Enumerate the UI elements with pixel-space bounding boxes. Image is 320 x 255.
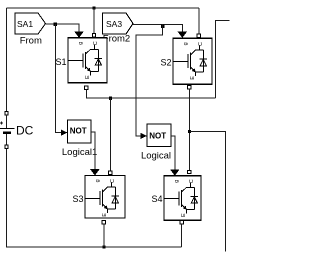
- NOT gate Logical1 block: [68, 120, 92, 143]
- wire DC- lead: [6, 134, 8, 145]
- svg-text:NOT: NOT: [149, 131, 166, 140]
- wire SA3 branch to Logical: [136, 24, 163, 136]
- wire DC+ lead: [6, 115, 8, 128]
- arrow into Logical input: [141, 133, 148, 139]
- svg-text:S3: S3: [72, 194, 83, 204]
- wire mid rail up right side: [216, 20, 230, 98]
- port square C of S1: [92, 34, 95, 37]
- port square C of S4: [188, 170, 191, 173]
- junction S2.E branch: [188, 130, 191, 133]
- wire SA1 branch to Logical1: [55, 24, 62, 133]
- wire S2.E to S4.C: [188, 89, 190, 171]
- DC battery short plate: [3, 131, 11, 133]
- IGBT S2 block: [173, 38, 212, 84]
- port square E of S2: [188, 85, 191, 88]
- DC source negative terminal: [5, 145, 8, 148]
- wire top rail DC+ to S1.C/S2.C: [7, 7, 199, 9]
- from tag SA3: [103, 13, 134, 34]
- IGBT S3 block: [85, 176, 125, 219]
- arrow S1 gate input: [74, 32, 83, 38]
- port square C of S3: [109, 171, 112, 174]
- port square C of S2: [197, 34, 200, 37]
- DC plus sign: [0, 122, 3, 125]
- IGBT S4 icon: [164, 179, 198, 217]
- IGBT S1 icon: [68, 41, 102, 79]
- NOT gate Logical block: [147, 124, 171, 147]
- junction bottom rail / S3.E: [102, 245, 105, 248]
- wire S2.C riser: [198, 8, 200, 34]
- port square E of S4: [180, 220, 183, 223]
- junction mid rail / S3.C riser: [109, 97, 112, 100]
- wire Logical output to S4 gate: [171, 136, 175, 170]
- arrow into Logical1 input: [61, 130, 68, 136]
- IGBT S4 block: [164, 176, 201, 220]
- IGBT S2 icon: [173, 42, 207, 80]
- IGBT S1 block: [68, 38, 107, 83]
- arrow S4 gate input: [170, 169, 179, 175]
- junction SA1 branch: [54, 23, 57, 26]
- junction SA3 branch: [161, 25, 164, 28]
- wire S1.E to mid rail: [87, 90, 216, 99]
- wire left rail DC+: [6, 8, 8, 111]
- DC source positive terminal: [5, 111, 8, 114]
- DC battery long plate: [0, 127, 15, 129]
- svg-text:Logical: Logical: [141, 150, 171, 161]
- wire bottom rail DC- to S3.E/S4.E: [7, 148, 182, 247]
- wire Logical1 output to S3 gate: [91, 132, 95, 169]
- svg-text:S4: S4: [151, 194, 162, 204]
- junction top rail / S1.C riser: [92, 6, 95, 9]
- IGBT S3 icon: [85, 179, 119, 217]
- svg-text:DC: DC: [16, 124, 34, 138]
- wire S1.C riser: [93, 8, 95, 34]
- port square E of S1: [85, 86, 88, 89]
- wire S4.E stub: [181, 224, 183, 247]
- svg-text:Logical1: Logical1: [62, 147, 97, 158]
- svg-text:From: From: [20, 35, 42, 46]
- svg-text:SA3: SA3: [106, 19, 122, 29]
- svg-text:SA1: SA1: [17, 19, 33, 29]
- port square E of S3: [102, 220, 105, 223]
- wire branch to bottom right: [189, 132, 225, 252]
- svg-text:NOT: NOT: [70, 126, 87, 135]
- svg-text:S1: S1: [55, 57, 66, 67]
- arrow S2 gate input: [178, 32, 187, 38]
- wire SA1 to S1 gate: [46, 24, 80, 32]
- svg-text:S2: S2: [160, 57, 171, 67]
- wire SA3 to S2 gate: [133, 24, 182, 31]
- from tag SA1: [15, 13, 46, 34]
- arrow S3 gate input: [90, 169, 99, 175]
- wire S3.E stub: [103, 224, 105, 247]
- wire S3.C riser: [109, 98, 111, 171]
